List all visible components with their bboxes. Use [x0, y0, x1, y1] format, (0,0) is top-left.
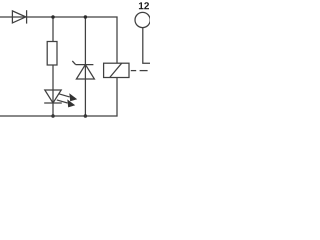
terminal circle 12	[135, 12, 150, 27]
node junction top zener	[84, 15, 88, 19]
wire resistor to bottom rail	[52, 65, 54, 116]
wire bottom rail	[0, 115, 118, 117]
wire terminal 12 lead	[143, 27, 150, 63]
wire relay actuator dashed link	[131, 70, 148, 72]
relay coil K1	[104, 63, 129, 77]
label terminal 12	[139, 2, 149, 9]
wire relay coil top lead	[116, 16, 118, 63]
wire resistor branch	[52, 17, 54, 42]
wire zener branch	[84, 17, 86, 116]
wire top rail	[0, 16, 118, 18]
node junction top-left	[51, 15, 55, 19]
resistor R1	[47, 42, 57, 66]
diode D1	[12, 10, 26, 23]
wire relay coil bottom lead	[116, 78, 118, 117]
node junction LED bottom	[51, 114, 55, 118]
LED D2	[44, 90, 77, 107]
node junction zener bottom	[84, 114, 88, 118]
zener diode D3	[72, 61, 94, 79]
